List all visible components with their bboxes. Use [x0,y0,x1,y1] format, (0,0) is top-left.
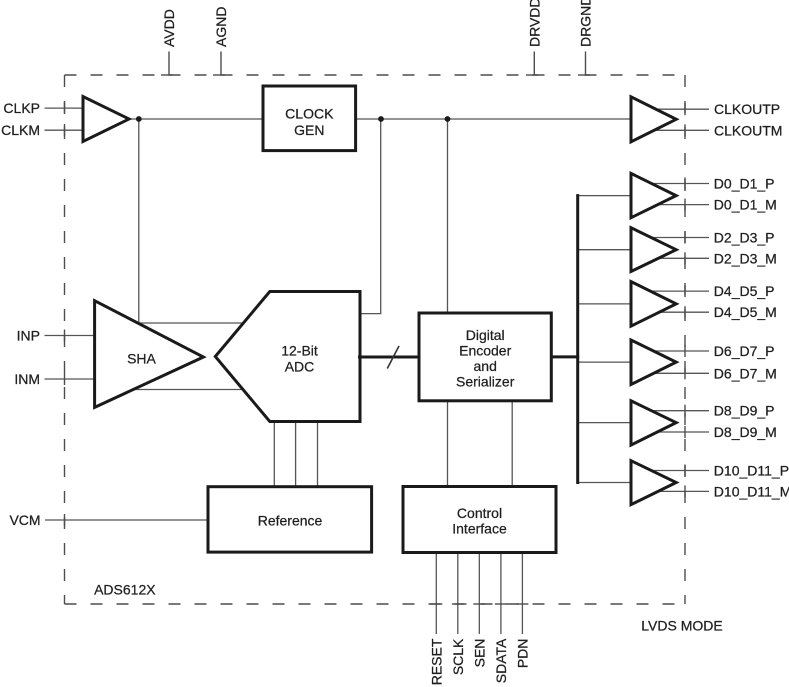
wire D4_D5_P output [648,290,709,292]
wire D10_D11_P output [648,470,709,472]
pin stub DRVDD [526,52,538,76]
node clock to ADC junction [378,116,384,122]
label 12-Bit ADC [281,342,318,374]
svg-text:D0_D1_P: D0_D1_P [714,176,775,192]
svg-text:D0_D1_M: D0_D1_M [714,197,777,213]
wire ADC to reference 3 [317,414,319,490]
block Control Interface [403,487,556,553]
wire D6_D7_M output [648,372,709,374]
svg-text:CLKOUTM: CLKOUTM [714,122,782,138]
LVDS driver D2_D3 [631,228,676,272]
bus encoder to LVDS drivers [550,355,579,358]
bus ADC to encoder [358,356,421,359]
wire ADC to reference 2 [295,414,297,490]
wire D0_D1_M output [648,204,709,206]
boundary crossing ticks right [684,103,686,497]
svg-text:AVDD: AVDD [161,9,177,47]
svg-text:SDATA: SDATA [493,638,509,683]
svg-text:AGND: AGND [213,7,229,47]
wire INM input [45,378,101,380]
wire SDATA [500,550,502,634]
op-amp SHA [95,301,204,408]
svg-text:Serializer: Serializer [456,374,515,390]
chip boundary dashed right [684,75,686,604]
wire CLKOUTM output [648,129,709,131]
wire D0_D1_P output [648,183,709,185]
wire SCLK [457,550,459,634]
svg-text:Control: Control [457,505,502,521]
bus width slash [387,346,399,369]
wire ADC to reference 1 [273,414,275,490]
bus vertical distribution [576,194,579,484]
svg-text:D2_D3_M: D2_D3_M [714,250,777,266]
wire bus to driver D2_D3 [578,249,640,251]
wire bus to driver D10_D11 [578,482,640,484]
wire CLKP input [45,107,93,109]
pin stub DRGND [578,52,590,76]
svg-text:D6_D7_P: D6_D7_P [714,343,775,359]
wire clock to SHA [139,119,248,323]
svg-text:CLKOUTP: CLKOUTP [714,101,780,117]
chip boundary dashed left [64,75,66,604]
wire clock to encoder and control interface [447,119,449,490]
LVDS driver D4_D5 [631,282,676,327]
wire bus to driver D8_D9 [578,422,640,424]
wire INP input [45,335,101,337]
svg-text:SEN: SEN [471,639,487,668]
svg-text:ADS612X: ADS612X [94,581,156,597]
wire RESET [435,550,437,634]
LVDS driver CLKOUT [631,97,676,142]
block CLOCK GEN [263,86,356,151]
wire D2_D3_M output [648,257,709,259]
wire clock main net [124,118,640,120]
wire D6_D7_P output [648,350,709,352]
wire VCM input [45,519,212,521]
svg-text:Digital: Digital [466,327,505,343]
wire D8_D9_P output [648,410,709,412]
wire SHA to ADC lower [126,389,248,391]
svg-text:Reference: Reference [258,513,323,529]
label Digital Encoder and Serializer [456,327,515,390]
svg-text:D4_D5_M: D4_D5_M [714,304,777,320]
wire D8_D9_M output [648,431,709,433]
svg-text:INP: INP [17,328,40,344]
svg-text:SCLK: SCLK [450,638,466,675]
svg-text:and: and [474,358,497,374]
pin stub AGND [213,52,225,76]
node clock to encoder junction [445,116,451,122]
chip boundary dashed bottom [65,603,686,605]
wire D10_D11_M output [648,490,709,492]
boundary crossing ticks bottom [430,603,528,605]
wire CLKOUTP output [648,108,709,110]
svg-text:CLKP: CLKP [3,100,40,116]
svg-text:ADC: ADC [285,358,315,374]
svg-text:D10_D11_P: D10_D11_P [714,463,789,479]
wire bus to driver D6_D7 [578,361,640,363]
LVDS driver D10_D11 [631,461,676,505]
wire bus to driver D0_D1 [578,195,640,197]
block Reference [208,487,372,552]
node clock buffer output junction [136,116,142,122]
svg-text:CLKM: CLKM [1,122,40,138]
svg-text:12-Bit: 12-Bit [281,342,318,358]
pin stub AVDD [161,52,173,76]
svg-text:GEN: GEN [294,122,324,138]
wire D4_D5_M output [648,311,709,313]
boundary crossing ticks left [64,102,66,526]
wire bus to driver D4_D5 [578,303,640,305]
svg-text:SHA: SHA [127,351,156,367]
svg-text:D8_D9_M: D8_D9_M [714,424,777,440]
svg-text:D8_D9_P: D8_D9_P [714,403,775,419]
clock input buffer [83,97,129,142]
svg-text:Encoder: Encoder [459,343,511,359]
label Control Interface [452,505,507,536]
svg-text:Interface: Interface [452,520,507,536]
wire D2_D3_P output [648,237,709,239]
svg-text:D2_D3_P: D2_D3_P [714,230,775,246]
chip boundary dashed top [65,74,686,76]
svg-text:PDN: PDN [514,639,530,669]
svg-text:LVDS MODE: LVDS MODE [641,617,722,633]
svg-text:DRGND: DRGND [578,0,594,47]
wire SEN [478,550,480,634]
wire CLKM input [45,129,93,131]
wire clock to ADC [358,119,381,314]
svg-text:VCM: VCM [9,512,40,528]
wire encoder to control interface [511,398,513,490]
label CLOCK GEN [285,106,334,138]
svg-text:RESET: RESET [428,638,444,685]
LVDS driver D8_D9 [631,401,676,445]
block 12-Bit ADC [215,292,360,422]
svg-text:D10_D11_M: D10_D11_M [714,483,789,499]
svg-text:D4_D5_P: D4_D5_P [714,283,775,299]
LVDS driver D6_D7 [631,340,676,385]
block Digital Encoder and Serializer [419,313,551,401]
svg-text:CLOCK: CLOCK [285,106,334,122]
svg-text:DRVDD: DRVDD [527,0,543,47]
LVDS driver D0_D1 [631,173,676,217]
svg-text:INM: INM [14,371,40,387]
svg-text:D6_D7_M: D6_D7_M [714,365,777,381]
wire PDN [521,550,523,634]
